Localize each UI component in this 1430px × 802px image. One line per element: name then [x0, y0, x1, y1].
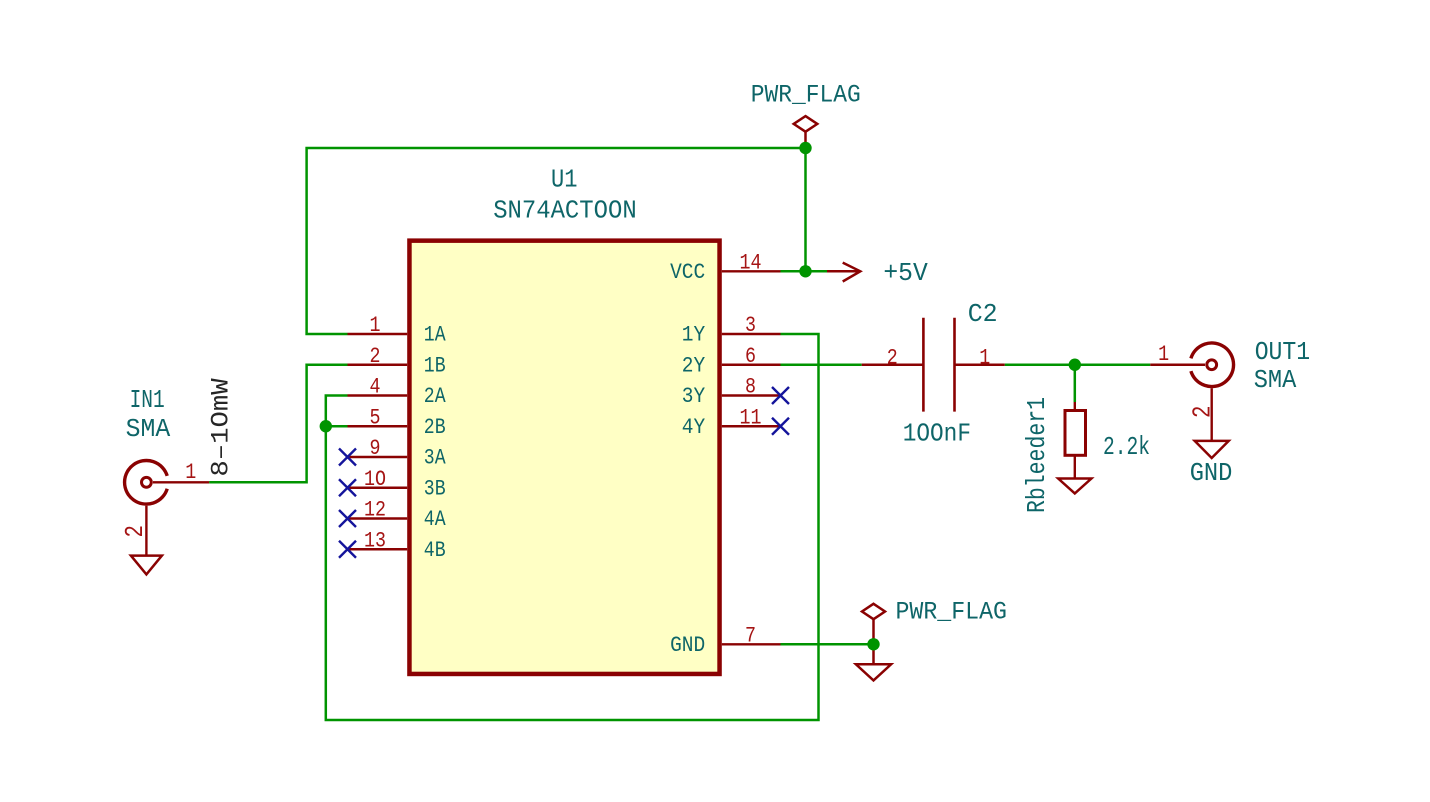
svg-text:2.2k: 2.2k — [1103, 433, 1150, 462]
svg-text:2Y: 2Y — [682, 353, 705, 378]
svg-text:2: 2 — [120, 525, 150, 538]
svg-text:3Y: 3Y — [682, 384, 705, 409]
svg-text:2: 2 — [887, 344, 898, 370]
svg-text:4: 4 — [370, 374, 381, 400]
svg-text:Rbleeder1: Rbleeder1 — [1023, 397, 1052, 513]
svg-text:VCC: VCC — [670, 260, 705, 285]
svg-text:4B: 4B — [424, 538, 446, 563]
svg-text:2A: 2A — [424, 384, 447, 409]
svg-text:C2: C2 — [968, 300, 998, 329]
svg-text:+5V: +5V — [883, 259, 928, 288]
svg-text:8–1OmW: 8–1OmW — [207, 377, 236, 476]
svg-text:1: 1 — [185, 459, 196, 485]
svg-text:1O: 1O — [364, 466, 386, 492]
svg-text:OUT1: OUT1 — [1255, 338, 1311, 367]
svg-text:PWR_FLAG: PWR_FLAG — [896, 598, 1008, 627]
svg-text:PWR_FLAG: PWR_FLAG — [751, 80, 861, 109]
svg-text:2: 2 — [1188, 406, 1218, 419]
svg-text:GND: GND — [1190, 459, 1233, 488]
svg-text:6: 6 — [745, 343, 756, 369]
svg-text:1A: 1A — [424, 323, 447, 348]
svg-text:1Y: 1Y — [682, 323, 705, 348]
svg-text:13: 13 — [364, 527, 386, 553]
svg-text:2B: 2B — [424, 415, 446, 440]
svg-text:GND: GND — [670, 633, 705, 658]
svg-text:4A: 4A — [424, 507, 447, 532]
svg-text:4Y: 4Y — [682, 415, 705, 440]
svg-text:U1: U1 — [551, 165, 578, 194]
svg-text:1: 1 — [1158, 341, 1169, 367]
svg-text:3A: 3A — [424, 446, 447, 471]
svg-text:9: 9 — [370, 435, 381, 461]
svg-text:1: 1 — [370, 312, 381, 338]
svg-text:7: 7 — [745, 623, 756, 649]
svg-text:IN1: IN1 — [130, 386, 165, 415]
svg-text:5: 5 — [370, 404, 381, 430]
svg-text:SMA: SMA — [126, 415, 171, 444]
svg-text:2: 2 — [370, 343, 381, 369]
svg-text:1OOnF: 1OOnF — [903, 419, 971, 448]
svg-text:SMA: SMA — [1254, 366, 1297, 395]
svg-text:14: 14 — [740, 250, 762, 276]
svg-text:1B: 1B — [424, 353, 446, 378]
svg-text:11: 11 — [740, 404, 762, 430]
svg-text:12: 12 — [364, 497, 386, 523]
svg-text:SN74ACTOON: SN74ACTOON — [493, 196, 637, 225]
svg-text:3B: 3B — [424, 476, 446, 501]
svg-text:1: 1 — [979, 344, 990, 370]
svg-text:3: 3 — [745, 312, 756, 338]
svg-text:8: 8 — [745, 374, 756, 400]
